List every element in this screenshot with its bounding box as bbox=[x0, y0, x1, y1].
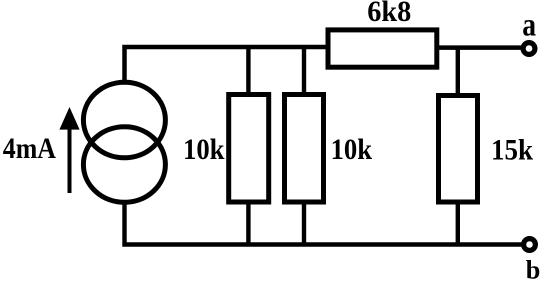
resistor 15k (vertical, right) bbox=[439, 96, 478, 203]
resistor 6k8 (top, horizontal) bbox=[328, 30, 437, 67]
label: terminal b bbox=[526, 256, 541, 284]
resistor 10k left (vertical) bbox=[229, 95, 269, 203]
label: 6k8 value bbox=[367, 0, 411, 28]
current source I1: upper circle bbox=[83, 82, 165, 158]
wire: bottom rail from current source to terminal b bbox=[125, 203, 523, 245]
wire: bottom stub of left 10k resistor bbox=[246, 202, 250, 245]
svg-text:10k: 10k bbox=[331, 133, 373, 166]
label: 10k value (left resistor) bbox=[183, 133, 225, 166]
terminal a: open circle node bbox=[523, 43, 535, 55]
svg-text:10k: 10k bbox=[183, 133, 225, 166]
terminal b: open circle node bbox=[524, 239, 536, 251]
wire: bottom stub of 15k resistor bbox=[456, 202, 460, 245]
wire: top stub of middle 10k resistor bbox=[302, 47, 306, 94]
svg-text:6k8: 6k8 bbox=[367, 0, 411, 28]
svg-text:15k: 15k bbox=[491, 134, 533, 167]
resistor 10k middle (vertical) bbox=[285, 95, 324, 203]
wire: top stub of 15k resistor bbox=[456, 47, 460, 95]
label: 10k value (middle resistor) bbox=[331, 133, 373, 166]
wire: top stub of left 10k resistor bbox=[246, 47, 250, 94]
label: 4mA value of current source bbox=[3, 132, 56, 165]
current source I1: direction arrow bbox=[59, 107, 79, 193]
svg-text:a: a bbox=[522, 6, 536, 43]
label: terminal a bbox=[522, 6, 536, 43]
current source I1: lower circle bbox=[83, 127, 165, 203]
wire: top rail left segment with corner down to current source bbox=[125, 47, 328, 81]
svg-text:b: b bbox=[526, 256, 541, 284]
label: 15k value bbox=[491, 134, 533, 167]
svg-text:4mA: 4mA bbox=[3, 132, 56, 165]
wire: bottom stub of middle 10k resistor bbox=[302, 202, 306, 245]
wire: top rail right segment from 6k8 to terminal a bbox=[437, 45, 524, 50]
